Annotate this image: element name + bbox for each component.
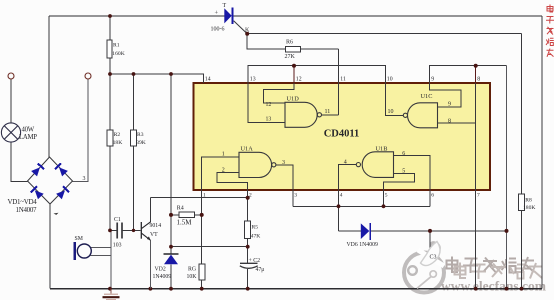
svg-text:R1: R1 (113, 43, 120, 49)
svg-text:C3: C3 (430, 255, 437, 261)
wire U1B output pin4 (339, 165, 357, 207)
ground symbol (103, 289, 120, 300)
bridge diode VD2b (top-right) (54, 163, 68, 177)
junction ground R8 (520, 287, 524, 291)
svg-text:U1A: U1A (241, 146, 254, 153)
svg-text:1N4007: 1N4007 (16, 206, 38, 214)
wire pins 9-8 rail (430, 66, 507, 83)
op-amp gate U1C (mirrored) (403, 103, 437, 128)
svg-text:U1B: U1B (376, 145, 388, 152)
svg-text:13: 13 (266, 117, 272, 123)
bottom pin labels (203, 193, 480, 199)
wire lamp to bridge left corner (11, 142, 28, 182)
junction pin12 rail (292, 64, 296, 68)
wire x430 lower column (429, 231, 431, 256)
wire U1B input5 routing / pin5 (384, 174, 415, 207)
wire x171 column (170, 74, 172, 289)
diode VD2 (zener) (164, 254, 179, 264)
junction VD6 rail x430 (428, 229, 432, 233)
svg-text:5: 5 (402, 169, 405, 175)
diode VD6 (361, 223, 371, 240)
junction ground x506 (505, 287, 509, 291)
wire bottom ground rail (50, 288, 542, 290)
wire R8 column (521, 34, 523, 289)
svg-text:180K: 180K (523, 205, 535, 211)
junction ground C2 (246, 287, 250, 291)
svg-text:R8: R8 (525, 198, 532, 204)
svg-text:100-6: 100-6 (211, 27, 225, 33)
wire pins 13-12-10 rail (248, 66, 386, 83)
wire pin4 branch to VD6 rail (338, 206, 340, 231)
svg-text:1.5M: 1.5M (177, 219, 193, 227)
bridge diode VD1 (top-left) (31, 163, 45, 177)
wire bridge bottom to ground rail (49, 204, 51, 289)
svg-text:R3: R3 (137, 132, 144, 138)
resistor R8 (519, 194, 525, 211)
wire U1A output pin3 (276, 165, 293, 207)
svg-text:U1C: U1C (421, 93, 433, 100)
junction R4 left (169, 213, 173, 217)
svg-text:9: 9 (431, 77, 434, 83)
wire diode T diagonal to node K (234, 21, 248, 34)
svg-text:C1: C1 (114, 217, 121, 223)
junction C2 top rail (246, 245, 250, 249)
wire U1A input2 routing / pin2 column (217, 173, 248, 289)
svg-text:SM: SM (75, 236, 83, 242)
svg-text:2: 2 (249, 193, 252, 199)
svg-text:1: 1 (203, 193, 206, 199)
op-amp gate U1B (mirrored) (356, 152, 393, 178)
microphone SM (73, 242, 76, 260)
wire C1 row: R2 node to C1 to VT base (110, 229, 141, 231)
svg-text:8: 8 (477, 77, 480, 83)
wire rail y246.7 (171, 246, 248, 248)
wire U1C input8 routing (438, 122, 476, 124)
svg-text:VD2: VD2 (155, 267, 166, 273)
svg-text:LAMP: LAMP (19, 134, 37, 141)
node K junction (245, 32, 249, 36)
svg-text:+ C2: + C2 (249, 258, 261, 264)
wire VD6 rail (339, 230, 507, 232)
svg-text:4: 4 (340, 193, 343, 199)
wire U1B input6 / pin6 (394, 156, 431, 207)
wire R2 column (109, 74, 111, 230)
junction VD2 top rail (169, 245, 173, 249)
photoresistor RG (199, 264, 205, 280)
wire U1A input1 / pin1 column (202, 157, 239, 289)
svg-text:3: 3 (294, 193, 297, 199)
junction ground VD2 (169, 287, 173, 291)
svg-text:11: 11 (340, 77, 346, 83)
wire mic outputs and column (91, 230, 112, 288)
svg-text:40W: 40W (22, 127, 35, 134)
svg-text:160K: 160K (112, 51, 124, 57)
watermark pseudo-hanzi text 电子发烧友 (vector strokes) (447, 257, 535, 274)
junction R1/R2 rail y74 (108, 72, 112, 76)
wire pin8 to pin7 ground column (475, 83, 477, 289)
op-amp gate U1A (239, 152, 276, 177)
junction pin5 rail (382, 204, 386, 208)
terminal circle A (8, 73, 14, 79)
terminal circle B (85, 73, 91, 79)
wire terminal1 to lamp (10, 79, 12, 124)
wire pin11 column through R6 (338, 49, 340, 115)
svg-text:1: 1 (222, 152, 225, 158)
svg-text:47K: 47K (251, 234, 261, 240)
svg-text:U1D: U1D (287, 96, 300, 103)
wire x506 column (506, 66, 508, 289)
svg-text:6: 6 (431, 193, 434, 199)
svg-text:www.elecfans.com: www.elecfans.com (441, 279, 547, 294)
svg-text:VD6 1N4009: VD6 1N4009 (347, 242, 379, 248)
svg-text:6: 6 (402, 151, 405, 157)
polarity arrow mark (54, 213, 59, 215)
junction R3 rail y74 (132, 72, 136, 76)
wire R3 column (133, 74, 135, 230)
junction VD6 rail x506 (505, 229, 509, 233)
transistor VT 9014 (141, 222, 150, 289)
resistor R5 (245, 221, 251, 239)
svg-text:8: 8 (448, 119, 451, 125)
svg-text:2: 2 (222, 168, 225, 174)
wire K drop and R6 series wire to pin11 (247, 34, 338, 49)
svg-text:13: 13 (250, 77, 256, 83)
svg-text:12: 12 (266, 102, 272, 108)
watermark pseudo-hanzi offset copy (455, 263, 543, 280)
svg-text:5: 5 (385, 193, 388, 199)
watermark leaf occluding part (417, 242, 440, 289)
junction ground emitter (149, 287, 153, 291)
wire U1C input9 routing (430, 83, 461, 107)
svg-text:VD1~VD4: VD1~VD4 (8, 198, 38, 206)
IC outline yellow box CD4011 (194, 83, 491, 190)
svg-text:47μ: 47μ (256, 267, 265, 273)
wire top rail (49, 15, 542, 17)
junction pin4 rail (337, 204, 341, 208)
wire pin8 through column (475, 66, 477, 83)
svg-text:R5: R5 (252, 225, 259, 231)
svg-text:3: 3 (282, 160, 285, 166)
junction pin2 collector rail (246, 196, 250, 200)
wire pin12 stub (293, 66, 295, 83)
resistor R1 (107, 40, 112, 58)
wire right border drop (541, 16, 543, 289)
wire VT collector rail to pin2 (150, 198, 247, 223)
svg-text:4: 4 (344, 159, 347, 165)
svg-text:3: 3 (83, 176, 86, 182)
svg-text:9: 9 (448, 102, 451, 108)
lamp 40W (1, 123, 20, 142)
op-amp gate U1D (285, 102, 322, 127)
diode T 100-6 (224, 8, 233, 24)
svg-text:27K: 27K (285, 54, 296, 60)
svg-text:10: 10 (387, 77, 393, 83)
wire pins 3-4-5-6 rail (293, 205, 430, 207)
wire terminal2 down to bridge right corner (73, 79, 89, 181)
junction x171 rail y74 (169, 72, 173, 76)
svg-text:RG: RG (188, 267, 196, 273)
resistor R6 (286, 47, 301, 52)
wire rail y74 to pin14 (110, 74, 204, 83)
red vertical watermark text top-right (546, 5, 554, 57)
svg-text:10K: 10K (187, 274, 198, 280)
resistor R3 (131, 130, 137, 146)
junction pin8 rail (474, 64, 478, 68)
svg-text:R4: R4 (177, 206, 184, 212)
svg-text:T: T (223, 3, 227, 9)
wire R1 column (109, 16, 111, 74)
svg-text:9014: 9014 (150, 223, 162, 229)
bridge diode VD4b (bottom-right) (56, 186, 70, 200)
wire U1D output to pin11 (322, 114, 339, 116)
svg-text:R6: R6 (286, 40, 293, 46)
capacitor C2 (240, 263, 258, 268)
wire left AC drop to bridge top (48, 16, 50, 158)
junction dots group (108, 14, 523, 291)
svg-text:CD4011: CD4011 (324, 129, 360, 140)
junction C1/mic node (108, 229, 112, 233)
bridge rectifier VD1-VD4 (28, 157, 73, 204)
resistor R2 (107, 130, 113, 146)
svg-text:7: 7 (477, 193, 480, 199)
junction R4 right (200, 213, 204, 217)
junction R1 top rail (108, 14, 112, 18)
junction ground x110 (108, 287, 112, 291)
svg-text:11: 11 (325, 109, 331, 115)
svg-text:14: 14 (205, 77, 211, 83)
svg-text:VT: VT (150, 232, 158, 238)
top pin labels (205, 77, 481, 83)
bridge diode VD3b (bottom-left) (30, 186, 44, 200)
svg-text:10: 10 (388, 109, 394, 115)
svg-text:K: K (245, 28, 250, 34)
svg-text:39K: 39K (136, 140, 146, 146)
junction ground pin7 (474, 287, 478, 291)
svg-text:103: 103 (113, 243, 122, 249)
junction R3 bottom (132, 229, 135, 232)
wire R4 row (171, 214, 202, 216)
svg-text:+: + (215, 10, 219, 17)
svg-text:R2: R2 (114, 132, 121, 138)
svg-text:18K: 18K (113, 140, 123, 146)
wire U1C output to pin10 (386, 83, 404, 115)
wire node K rail to R8 column (247, 33, 521, 35)
junction ground RG (200, 287, 204, 291)
capacitor C1 (117, 223, 122, 239)
watermark logo bottom right (404, 243, 444, 293)
svg-text:12: 12 (296, 77, 302, 83)
resistor R4 (179, 212, 195, 217)
wire U1D input routing (248, 83, 294, 123)
svg-text:1N4009: 1N4009 (153, 274, 172, 280)
